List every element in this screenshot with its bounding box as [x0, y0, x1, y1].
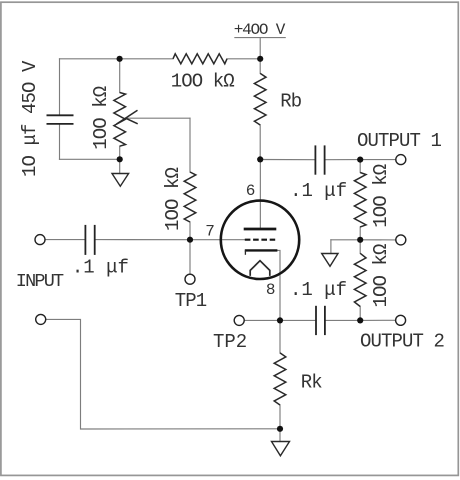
- capacitor .1uf input plates: [84, 225, 86, 255]
- wire: cathode pin 8 down: [277, 250, 280, 320]
- wire: bottom of cap to pot bottom junction: [60, 158, 120, 160]
- potentiometer wiper arrow barb lower: [125, 118, 138, 124]
- wire: bottom junction to OUTPUT2 terminal: [360, 319, 395, 321]
- resistor 100k grid: [184, 172, 196, 222]
- capacitor 10uf 450V plates: [47, 114, 74, 116]
- wire: Rb junction to output1 cap: [260, 159, 315, 161]
- wire: junction to OUTPUT1 terminal: [360, 159, 395, 161]
- svg-text:INPUT: INPUT: [16, 271, 64, 292]
- resistor 100k output divider upper: [354, 173, 366, 227]
- tube cathode: [245, 249, 278, 251]
- wire: output2 cap to junction: [325, 319, 360, 321]
- svg-text:1OO kΩ: 1OO kΩ: [162, 167, 184, 231]
- terminal OUTPUT1: [396, 155, 406, 165]
- svg-text:1OO kΩ: 1OO kΩ: [370, 164, 392, 228]
- wire: cathode junction to output2 cap: [280, 319, 316, 321]
- svg-text:1OO kΩ: 1OO kΩ: [370, 244, 392, 308]
- wire: grid resistor bottom lead: [189, 222, 191, 240]
- svg-text:TP1: TP1: [175, 290, 207, 312]
- svg-text:+4OO V: +4OO V: [234, 21, 286, 39]
- resistor Rk: [274, 353, 286, 405]
- svg-text:.1 μf: .1 μf: [72, 257, 129, 279]
- ground below Rk: [272, 442, 290, 456]
- svg-text:8: 8: [266, 281, 276, 299]
- resistor 100k output divider lower: [354, 253, 366, 306]
- wire: +400V bar: [235, 37, 285, 39]
- wire: middle junction to ground branch: [331, 239, 360, 241]
- wire: top row right of resistor: [227, 58, 260, 60]
- tube cathode left tick: [244, 250, 246, 254]
- terminal OUTPUT2: [396, 315, 406, 325]
- tube V1 envelope: [221, 201, 299, 279]
- ground mid-right divider: [322, 254, 338, 267]
- wire: pot bottom lead: [119, 146, 121, 159]
- wire: wiper down to grid resistor: [189, 118, 191, 172]
- tube heater: [250, 261, 270, 276]
- wire: top row y=58.8 left of resistor: [60, 58, 174, 60]
- wire: middle junction to mid terminal: [360, 239, 395, 241]
- wire: Rb bottom lead: [259, 125, 261, 159]
- wire: input terminal to cap: [45, 239, 84, 241]
- terminal mid-right: [396, 235, 406, 245]
- terminal TP1: [185, 274, 195, 284]
- svg-text:Rk: Rk: [301, 372, 323, 394]
- wire: lower divider resistor top lead: [359, 240, 361, 254]
- capacitor .1uf output1 plates: [314, 145, 316, 174]
- wire: pot junction to ground stub: [119, 159, 121, 173]
- wire: output1 cap to resistor junction: [325, 159, 361, 161]
- potentiometer 100k body: [114, 93, 126, 147]
- svg-text:Rb: Rb: [280, 91, 302, 113]
- wire: Rk junction ground stub: [279, 429, 281, 442]
- tube plate: [244, 228, 277, 231]
- svg-text:.1 μf: .1 μf: [290, 279, 347, 301]
- wire: TP2 terminal to cathode junction: [245, 319, 280, 321]
- svg-text:1O μf 45O V: 1O μf 45O V: [19, 60, 41, 177]
- wire: plate pin 6 down into tube: [259, 159, 261, 229]
- ground below potentiometer: [112, 174, 129, 187]
- potentiometer wiper arrow barb upper (long): [117, 110, 138, 124]
- wire: Rk top lead: [279, 320, 281, 353]
- svg-text:7: 7: [205, 223, 215, 241]
- wire: ground branch stub down: [330, 240, 332, 254]
- wire: pot top lead: [119, 59, 121, 93]
- terminal TP2: [234, 315, 244, 325]
- wire: wiper horizontal: [126, 117, 191, 119]
- svg-text:TP2: TP2: [213, 331, 247, 353]
- wire: Rk bottom lead: [279, 405, 281, 429]
- svg-text:OUTPUT 2: OUTPUT 2: [360, 331, 445, 353]
- capacitor .1uf output2 plates: [315, 306, 317, 335]
- wire: Rb top lead: [259, 59, 261, 74]
- wire: +400V stub down: [259, 38, 261, 59]
- wire: TP1 stub: [189, 240, 191, 274]
- wire: lower divider resistor bottom lead: [359, 307, 361, 321]
- terminal INPUT: [35, 235, 45, 245]
- svg-text:1OO kΩ: 1OO kΩ: [90, 86, 112, 150]
- svg-text:OUTPUT 1: OUTPUT 1: [357, 130, 442, 152]
- tube grid (dashed): [245, 239, 275, 241]
- wire: cap 10uf bottom leg: [59, 124, 61, 159]
- wire: cap 10uf top leg: [59, 59, 61, 116]
- wire: feedback run from lower-left terminal: [46, 319, 280, 429]
- resistor Rb: [254, 73, 266, 125]
- junction dots: [117, 56, 123, 62]
- svg-text:1OO kΩ: 1OO kΩ: [171, 70, 235, 92]
- wire: output divider between resistors upper: [359, 227, 361, 240]
- svg-text:.1 μf: .1 μf: [290, 180, 347, 202]
- resistor 100k horizontal top: [173, 54, 227, 64]
- wire: grid junction into tube pin 7: [190, 239, 245, 241]
- wire: output divider upper lead: [359, 160, 361, 173]
- terminal lower-left: [36, 314, 46, 324]
- wire: input cap to grid junction: [96, 239, 190, 241]
- svg-text:6: 6: [246, 182, 256, 200]
